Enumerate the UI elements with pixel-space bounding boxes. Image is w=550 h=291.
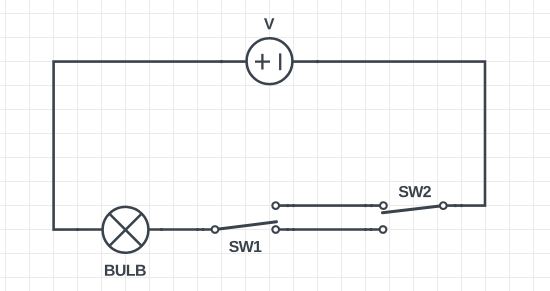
wire joint traveler top left xyxy=(292,204,296,207)
SW2 top pin stub end xyxy=(370,204,374,207)
terminal SW2 throw top xyxy=(380,202,387,209)
wire joint traveler bottom left xyxy=(292,228,296,231)
terminal SW1 throw bottom xyxy=(272,226,279,233)
label BULB xyxy=(105,265,146,276)
SW1 common pin stub end xyxy=(201,228,205,231)
wire joint right of bulb xyxy=(160,228,164,231)
wire joint right of SW2 xyxy=(460,204,464,207)
wire joint traveler bottom right xyxy=(364,228,368,231)
SW1 bottom throw pin stub end xyxy=(286,228,290,231)
SW2 bottom pin stub end xyxy=(369,228,373,231)
bulb X cross xyxy=(109,214,141,246)
SW2 common pin stub end xyxy=(453,204,457,207)
terminal SW1 throw top xyxy=(272,202,279,209)
label V xyxy=(264,18,274,29)
wire traveler bottom xyxy=(276,228,383,231)
wire bulb to SW1 xyxy=(149,228,215,231)
label SW2 xyxy=(399,186,431,197)
voltage source minus bar xyxy=(279,53,281,70)
voltage source plus sign xyxy=(255,54,270,70)
label SW1 xyxy=(229,241,261,252)
wire joint before SW1 pin xyxy=(196,228,200,231)
terminal SW1 common xyxy=(212,226,219,233)
wire top-right segment xyxy=(293,62,485,206)
wire joint on top wire right xyxy=(316,60,320,63)
wire top-left segment xyxy=(54,62,246,230)
wire traveler top xyxy=(276,204,384,207)
switch SW1 lever xyxy=(215,222,277,230)
terminal SW2 common xyxy=(440,202,447,209)
wire joint on top wire left xyxy=(220,60,224,63)
terminal SW2 throw bottom xyxy=(380,226,387,233)
wire joint traveler top right xyxy=(364,204,368,207)
bulb body xyxy=(103,207,149,253)
wire joint left of bulb xyxy=(76,228,80,231)
voltage source V body xyxy=(247,38,293,84)
SW1 top throw pin stub end xyxy=(286,204,290,207)
switch SW2 lever xyxy=(383,206,444,213)
